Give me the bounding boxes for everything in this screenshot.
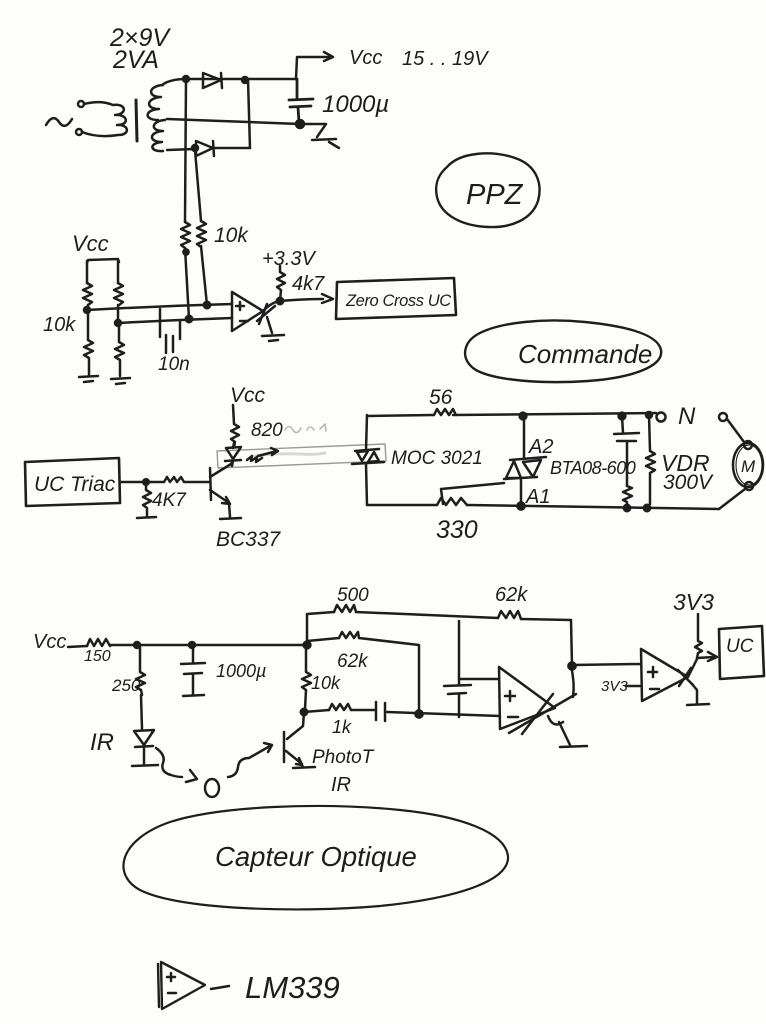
resistor R3 10k: [83, 283, 92, 305]
wire base drive: [120, 481, 163, 484]
svg-text:PPZ: PPZ: [466, 179, 524, 211]
svg-text:UC Triac: UC Triac: [34, 473, 116, 496]
wire U2 ground leg: [559, 722, 570, 745]
capacitor C2 10n legs: [160, 309, 180, 353]
resistor R11 snubber: [623, 486, 632, 508]
U2 minus sign: [508, 716, 518, 719]
capacitor C4 1000u: [181, 645, 205, 694]
primary terminal bottom: [76, 129, 82, 135]
wire arrow into uc: [697, 652, 717, 661]
svg-text:Capteur Optique: Capteur Optique: [215, 841, 417, 872]
ground symbol right: [111, 378, 130, 384]
light path arrow down: [156, 748, 197, 782]
legend plus sign: [167, 973, 175, 981]
wire feedback corner: [571, 620, 572, 665]
wire 3v3 dash: [626, 685, 640, 688]
resistor R13 150: [87, 639, 110, 646]
transformer T1 primary winding: [82, 102, 127, 136]
wire mains bottom rail: [367, 505, 719, 509]
wire sense line B lower: [201, 246, 207, 305]
transformer T1 secondary winding lower: [152, 120, 165, 151]
wire U1 ground leg: [267, 317, 272, 333]
wire U3 output to node: [688, 659, 697, 677]
node junction left divider: [84, 307, 90, 313]
node junction d2 anode: [192, 145, 198, 151]
svg-text:150: 150: [84, 648, 111, 665]
resistor R2 10k: [197, 221, 206, 247]
wire plus input stub: [459, 678, 498, 681]
U2 plus sign: [505, 691, 515, 701]
resistor R20 pullup: [695, 614, 702, 658]
varistor VDR: [646, 415, 655, 504]
diode D1: [203, 73, 222, 88]
node junction c1000: [189, 642, 195, 648]
svg-text:Vcc: Vcc: [230, 384, 266, 407]
slot wheel O: [205, 779, 219, 797]
wire vcc feed: [68, 646, 87, 647]
wire bottom rail: [167, 149, 195, 150]
ground symbol led: [132, 765, 158, 766]
resistor R10 56: [434, 409, 456, 415]
resistor R12 330: [437, 498, 467, 505]
wire diode to riser: [214, 80, 250, 148]
node junction line A on minus wire: [186, 316, 192, 322]
resistor R18 10k: [302, 645, 311, 709]
wire center-tap rail: [167, 119, 300, 124]
transformer core bar: [136, 100, 137, 141]
node junction right divider: [115, 320, 121, 326]
svg-text:500: 500: [337, 585, 369, 606]
wire motor bottom link: [719, 489, 745, 509]
wire divider right upper: [117, 260, 120, 283]
U2 output scribble: [509, 694, 576, 734]
legend minus sign: [168, 992, 176, 995]
wire mains top rail: [367, 413, 656, 416]
light path arrow up: [228, 743, 272, 777]
primary terminal top: [78, 101, 84, 107]
LED D3 optocoupler: [225, 443, 241, 466]
node blob on line A: [183, 249, 188, 254]
node junction snubber top: [619, 413, 626, 420]
svg-text:10n: 10n: [158, 354, 190, 375]
U1 plus sign: [236, 302, 244, 310]
box UC: [719, 626, 764, 679]
svg-text:BTA08-600: BTA08-600: [550, 458, 636, 478]
ground symbol U3: [687, 704, 709, 705]
resistor R8 820: [231, 405, 239, 447]
wire divider top bar: [87, 259, 119, 263]
node junction snubber bottom: [624, 505, 630, 511]
motor terminal bottom: [745, 482, 753, 490]
wire main rail capteur: [110, 644, 307, 647]
svg-text:LM339: LM339: [245, 970, 340, 1005]
wire divider left upper: [86, 261, 89, 283]
capacitor C6 parallel: [444, 621, 471, 717]
wire feedback upper: [307, 612, 571, 620]
resistor R15 500: [334, 605, 356, 612]
svg-text:10k: 10k: [43, 314, 76, 336]
svg-text:N: N: [678, 403, 696, 430]
capacitor C5 series: [376, 702, 385, 721]
node junction 62k join: [415, 710, 422, 717]
svg-text:1000µ: 1000µ: [216, 661, 266, 681]
bubble Commande: [465, 321, 661, 383]
transistor Q1 BC337: [210, 461, 233, 517]
svg-text:Vcc: Vcc: [33, 631, 66, 653]
node junction U1 output: [277, 298, 283, 304]
node junction center-tap: [296, 120, 304, 128]
svg-text:3V3: 3V3: [601, 678, 628, 695]
wire sense line B: [195, 150, 201, 221]
wire comparator minus input: [118, 318, 232, 323]
ground symbol U2: [560, 746, 587, 747]
svg-text:820: 820: [251, 420, 283, 441]
node junction comp1 out: [568, 662, 575, 669]
node junction r250: [134, 642, 140, 648]
svg-text:10k: 10k: [214, 224, 249, 247]
terminal circle motor top: [719, 413, 727, 421]
svg-text:M: M: [741, 457, 756, 476]
motor terminal top: [744, 441, 752, 449]
wire lower signal: [304, 710, 500, 716]
squiggle on base wire: [164, 477, 209, 482]
legend equals dash: [211, 986, 229, 989]
svg-text:62k: 62k: [495, 584, 528, 606]
wire sense line A lower: [185, 248, 189, 319]
AC source tilde: [46, 118, 72, 126]
triac Q2 BTA08-600: [504, 416, 546, 505]
svg-text:1k: 1k: [332, 717, 352, 737]
resistor R16 62k feedback: [498, 611, 521, 619]
resistor R7 4k7 pullup: [277, 266, 285, 300]
wire gate with step: [441, 483, 504, 504]
U1 output scribble: [257, 304, 275, 324]
wire r250 to led: [141, 695, 142, 729]
svg-text:IR: IR: [90, 729, 114, 756]
op-amp U3 comparator: [641, 649, 688, 701]
terminal N circle: [657, 413, 666, 422]
node junction top-right: [242, 77, 248, 83]
wire comp1 to comp2: [572, 664, 640, 665]
svg-text:56: 56: [429, 386, 453, 409]
diode D2: [196, 141, 214, 156]
svg-text:250: 250: [111, 676, 141, 695]
resistor R17 62k: [339, 632, 359, 638]
svg-text:4k7: 4k7: [292, 273, 325, 295]
resistor R14 250: [136, 645, 145, 695]
resistor R1 10k: [181, 222, 190, 248]
ground symbol emitter: [220, 518, 241, 519]
optocoupler outline box: [217, 444, 386, 468]
svg-text:2VA: 2VA: [112, 46, 159, 74]
node junction top-left: [183, 76, 189, 82]
svg-text:MOC 3021: MOC 3021: [391, 448, 483, 469]
wire Vcc riser with arrow: [296, 52, 333, 79]
svg-text:330: 330: [436, 516, 478, 544]
svg-text:62k: 62k: [337, 651, 369, 672]
wire 62k branch: [307, 638, 419, 713]
wire right to node: [117, 305, 120, 322]
node junction phototransistor collector: [301, 709, 307, 715]
ground symbol psu: [300, 124, 339, 148]
svg-text:1000µ: 1000µ: [322, 91, 389, 118]
wire top rail: [162, 79, 296, 85]
op-amp legend symbol: [158, 962, 205, 1009]
svg-text:PhotoT: PhotoT: [312, 747, 375, 768]
transistor Q3 phototransistor: [284, 712, 304, 767]
bubble PPZ: [436, 153, 539, 227]
svg-text:10k: 10k: [311, 673, 341, 693]
svg-text:Vcc: Vcc: [349, 47, 382, 69]
ground symbol U1: [262, 335, 284, 341]
svg-text:15 . . 19V: 15 . . 19V: [402, 48, 489, 70]
resistor R9 4K7: [143, 482, 151, 516]
op-amp U2 comparator: [499, 667, 555, 729]
node junction triac A2: [520, 413, 527, 420]
wire motor top link: [727, 419, 744, 442]
svg-text:3V3: 3V3: [673, 589, 714, 615]
box UC Triac: [25, 458, 120, 506]
svg-text:+3.3V: +3.3V: [262, 248, 316, 270]
node junction line B on plus wire: [204, 302, 210, 308]
capacitor C1 1000u: [289, 79, 313, 123]
resistor R6 lower right: [115, 323, 124, 376]
svg-text:A1: A1: [525, 486, 550, 508]
op-amp U1 zero-cross comparator: [232, 292, 263, 331]
wire U2 output diagonal: [571, 666, 574, 697]
faint streak in optobox: [255, 453, 325, 456]
resistor R5 10k: [114, 283, 123, 305]
U1 minus sign: [240, 320, 248, 323]
svg-text:Vcc: Vcc: [72, 231, 109, 256]
motor M1: [733, 443, 763, 487]
LED D4 IR: [134, 730, 154, 764]
svg-text:Commande: Commande: [518, 339, 652, 369]
U3 plus sign: [648, 667, 657, 677]
MOC3021 phototriac symbol: [352, 415, 384, 505]
svg-text:Zero Cross UC: Zero Cross UC: [345, 292, 451, 310]
wire U1 output: [263, 301, 280, 311]
light emission arrows: [247, 448, 278, 462]
resistor R4 lower left: [84, 310, 93, 375]
ground symbol phototransistor: [293, 767, 315, 768]
ground symbol left: [79, 376, 98, 382]
wire U3 ground: [692, 684, 697, 703]
wire comparator plus input: [87, 304, 232, 310]
node junction triac A1: [517, 502, 524, 509]
svg-text:UC: UC: [726, 636, 754, 657]
wire sense line A: [185, 79, 186, 222]
wire to zero-cross box with arrow: [280, 294, 333, 303]
node junction vdr top: [646, 412, 652, 418]
node junction base resistor: [143, 479, 149, 485]
resistor R19 1k: [329, 704, 351, 710]
transformer T1 secondary winding upper: [148, 85, 163, 120]
capacitor C3 snubber: [614, 416, 639, 486]
ground symbol base: [137, 517, 156, 518]
svg-text:BC337: BC337: [216, 528, 282, 551]
faint erased marks: [285, 424, 326, 433]
bubble Capteur Optique: [123, 806, 508, 909]
wire node riser: [306, 614, 309, 645]
U3 output scribble: [678, 668, 693, 686]
wire left to node: [87, 305, 88, 310]
svg-text:IR: IR: [331, 774, 351, 796]
node junction vdr bottom: [644, 505, 650, 511]
ground symbol c1000: [183, 695, 204, 696]
box Zero Cross UC: [336, 278, 456, 319]
U3 minus sign: [650, 688, 659, 691]
svg-text:A2: A2: [528, 436, 553, 458]
svg-text:4K7: 4K7: [152, 490, 187, 511]
svg-text:300V: 300V: [663, 471, 714, 494]
node junction divider: [304, 642, 311, 649]
